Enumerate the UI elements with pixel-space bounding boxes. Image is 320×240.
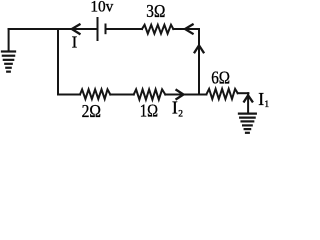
svg-text:6Ω: 6Ω [211, 68, 230, 88]
svg-text:3Ω: 3Ω [146, 1, 165, 21]
arrow pointing up on right vertical branch [195, 45, 204, 52]
svg-text:1: 1 [264, 100, 269, 110]
arrow I pointing left on top wire [72, 25, 80, 34]
arrow I1 pointing up on ground stub [244, 95, 252, 101]
ground right stub [247, 93, 249, 112]
resistor R 2ohm zigzag [80, 89, 110, 99]
wire resistor 3ohm to top-right corner [173, 28, 199, 30]
resistor R 6ohm zigzag [206, 89, 237, 99]
svg-text:I: I [72, 33, 78, 52]
arrow pointing left near top-right corner [185, 25, 193, 34]
resistor R 3ohm zigzag [142, 25, 173, 34]
arrow I2 pointing right on bottom wire [177, 90, 184, 99]
wire battery to resistor 3ohm [106, 28, 143, 30]
wire junction vertical left branch [57, 29, 59, 95]
resistor R 1ohm zigzag [134, 89, 166, 99]
svg-text:10v: 10v [90, 0, 113, 16]
svg-text:1Ω: 1Ω [140, 100, 158, 120]
svg-text:I: I [172, 98, 178, 118]
wire right vertical branch [198, 29, 200, 95]
svg-text:2Ω: 2Ω [82, 101, 101, 121]
battery B1 short plate [105, 25, 107, 34]
ground left symbol [2, 52, 15, 72]
wire resistor 1ohm to junction node [165, 94, 199, 96]
battery B1 long plate [97, 18, 99, 40]
svg-text:I: I [258, 89, 264, 109]
ground left stub [8, 29, 10, 50]
wire resistor 2ohm to resistor 1ohm [110, 94, 133, 96]
svg-text:2: 2 [178, 110, 183, 120]
wire resistor 6ohm to right ground corner [238, 92, 249, 94]
ground right symbol [239, 114, 256, 133]
wire junction to resistor 6ohm [199, 94, 206, 96]
wire top-left from ground corner to battery [9, 28, 98, 30]
wire bottom from left branch to resistor 2ohm [58, 94, 80, 96]
